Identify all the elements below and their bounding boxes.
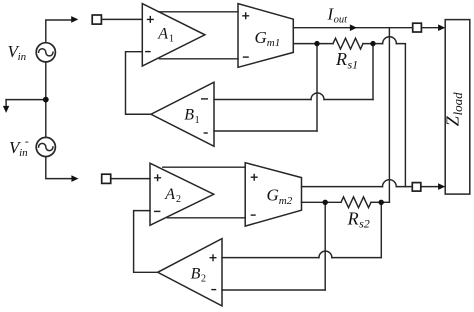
svg-text:2: 2 [201, 274, 206, 285]
svg-text:R: R [335, 49, 347, 69]
svg-text:out: out [334, 15, 349, 26]
svg-text:s1: s1 [348, 58, 359, 72]
svg-text:load: load [450, 92, 465, 116]
svg-text:R: R [347, 208, 359, 228]
svg-text:m1: m1 [267, 37, 280, 49]
svg-text:1: 1 [195, 115, 200, 126]
svg-text:G: G [267, 186, 279, 205]
svg-text:1: 1 [169, 34, 174, 45]
svg-text:B: B [184, 107, 194, 124]
svg-text:-: - [25, 134, 29, 148]
svg-text:m2: m2 [279, 195, 293, 207]
svg-text:A: A [157, 25, 168, 42]
svg-text:B: B [191, 266, 201, 283]
svg-text:in: in [19, 147, 28, 159]
svg-text:G: G [255, 28, 267, 47]
svg-text:s2: s2 [359, 217, 370, 231]
svg-text:Z: Z [443, 115, 463, 126]
svg-text:A: A [164, 186, 175, 203]
svg-text:in: in [18, 51, 27, 63]
svg-text:2: 2 [176, 194, 181, 205]
